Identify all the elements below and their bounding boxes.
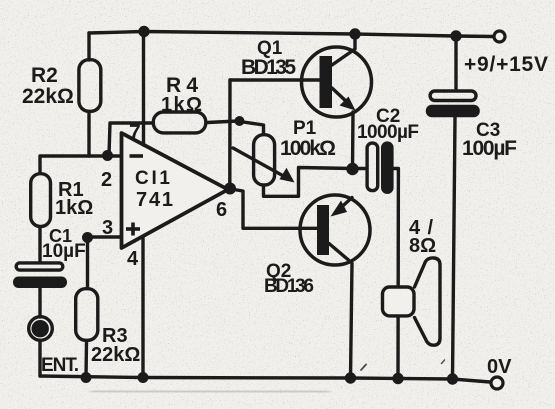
wire: pin6 to Q2 base <box>231 189 317 228</box>
svg-text:CI1: CI1 <box>135 168 170 189</box>
wire: base net vertical (pin6 to Q1 base) <box>228 80 232 188</box>
svg-text:ENT.: ENT. <box>41 355 79 376</box>
svg-text:0V: 0V <box>487 356 512 378</box>
svg-text:10µF: 10µF <box>42 241 86 262</box>
svg-text:1000µF: 1000µF <box>357 122 419 143</box>
scan smudge under ground rail <box>90 391 330 392</box>
capacitor C2 left plate <box>367 143 378 191</box>
wire: R1 top lead and pin2 inverting input wire <box>40 156 122 172</box>
wire: R3 bottom lead <box>84 342 88 378</box>
svg-text:P1: P1 <box>293 118 317 139</box>
terminal: 0V open circle <box>491 377 503 389</box>
node: pin3 junction <box>82 232 93 243</box>
svg-text:+9/+15V: +9/+15V <box>464 53 548 76</box>
resistor R3 <box>76 289 98 341</box>
svg-text:BD136: BD136 <box>264 276 314 297</box>
svg-text:3: 3 <box>102 217 113 239</box>
stray speck near C3 lead <box>442 360 445 364</box>
op-amp plus sign <box>126 223 140 236</box>
wire: P1 bottom to output node <box>264 168 353 197</box>
wire: rail to C3 <box>454 37 457 89</box>
node: pin6 output junction <box>224 183 236 195</box>
wire: output node to C2 <box>353 167 367 170</box>
wire: pin7 supply lead <box>142 32 145 146</box>
wire: R4 left lead to pin2 node <box>109 123 152 156</box>
wire: pin3 node to R3 <box>86 237 89 287</box>
potentiometer P1 body <box>254 135 275 185</box>
wire: bottom ground rail <box>40 376 490 382</box>
transistor Q2 circle <box>300 195 370 265</box>
svg-text:741: 741 <box>136 189 173 211</box>
node: base net junction at R4 <box>235 116 245 126</box>
svg-text:22kΩ: 22kΩ <box>22 85 74 108</box>
svg-text:BD135: BD135 <box>241 56 296 79</box>
capacitor C3 top plate <box>430 91 476 101</box>
svg-text:8Ω: 8Ω <box>409 235 436 257</box>
capacitor C3 bottom plate <box>426 105 480 118</box>
node: top rail junction at Q1 collector <box>349 28 360 39</box>
capacitor C1 bottom plate <box>13 277 67 289</box>
transistor Q1 collector lead <box>332 34 355 66</box>
capacitor C1 top plate <box>16 263 63 270</box>
svg-text:1kΩ: 1kΩ <box>161 94 202 116</box>
svg-text:2: 2 <box>101 169 112 191</box>
resistor R4 <box>153 112 206 133</box>
wire: Q1 base lead <box>230 78 320 81</box>
wire: pin4 ground lead <box>141 237 144 378</box>
node: ground rail at R3 <box>81 372 92 383</box>
wire: jack to ground rail <box>38 341 41 376</box>
wire: R2 top lead <box>87 33 90 60</box>
node: top rail junction at C3 <box>450 30 461 41</box>
transistor Q2 emitter arrowhead <box>331 201 348 217</box>
transistor Q1 emitter lead <box>332 88 349 104</box>
node: pin2 junction <box>102 150 113 161</box>
node: ground rail at speaker <box>392 373 403 384</box>
wire: C1 to input jack <box>38 288 41 317</box>
potentiometer P1 wiper arrowhead <box>280 168 295 183</box>
wire: C2 to speaker and ground rail <box>394 169 399 379</box>
wire: R2 bottom lead <box>87 113 90 156</box>
node: output emitters junction <box>346 163 358 175</box>
wire: Q1 emitter to output node <box>351 112 355 169</box>
capacitor C2 right plate <box>381 141 394 194</box>
svg-text:100kΩ: 100kΩ <box>280 137 336 160</box>
speaker LS1 driver body <box>383 287 415 316</box>
svg-text:4: 4 <box>127 248 139 270</box>
svg-text:100µF: 100µF <box>462 137 517 160</box>
svg-text:7: 7 <box>129 121 141 144</box>
node: top rail junction at pin7 <box>138 26 149 37</box>
node: ground rail at Q2 collector <box>345 372 356 383</box>
wire: R4 right lead <box>207 121 238 123</box>
potentiometer P1 wiper arrow <box>233 148 288 179</box>
wire: C3 to ground rail <box>453 118 456 379</box>
transistor Q2 collector lead <box>329 244 352 379</box>
op-amp U1 CI1 741 triangle <box>122 133 229 248</box>
terminal: +9/+15V open circle <box>494 31 505 42</box>
transistor Q1 base bar <box>320 56 333 108</box>
svg-text:R2: R2 <box>31 64 58 87</box>
svg-text:1kΩ: 1kΩ <box>55 197 93 219</box>
wire: R1 bottom lead <box>38 228 41 262</box>
connector J1 ENT outer ring <box>29 317 53 341</box>
resistor R2 <box>79 60 101 112</box>
transistor Q1 emitter arrowhead <box>340 97 356 111</box>
connector J1 center pin <box>33 322 47 336</box>
transistor Q2 base bar <box>317 205 329 255</box>
svg-text:6: 6 <box>216 199 227 221</box>
resistor R1 <box>31 174 51 227</box>
wire: pin3 non-inverting input wire <box>88 235 122 238</box>
svg-text:22kΩ: 22kΩ <box>91 344 140 366</box>
wire: branch to P1 top <box>240 122 264 135</box>
op-amp minus sign <box>130 154 144 158</box>
stray pen mark left of speaker <box>361 365 366 371</box>
transistor Q1 circle <box>302 47 372 117</box>
wire: top positive supply rail <box>89 32 493 37</box>
speaker LS1 cone <box>415 258 441 345</box>
node: ground rail at pin4 <box>138 372 149 383</box>
node: ground rail at C3 <box>447 373 458 384</box>
transistor Q2 emitter lead <box>340 198 352 209</box>
